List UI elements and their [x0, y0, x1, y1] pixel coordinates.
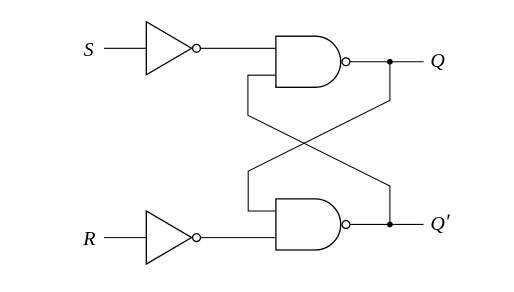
node Q' junction [387, 222, 393, 228]
nand U3 (top NAND gate) [276, 36, 350, 87]
wire U2 output to bottom NAND input 2 [200, 237, 276, 239]
svg-text:R: R [82, 228, 95, 250]
inverter U1 (S input NOT gate) [146, 22, 200, 75]
wire Q' feedback to top NAND input 2 [248, 75, 390, 224]
wire S input [104, 47, 146, 49]
wire U4 output to Q' [350, 223, 424, 225]
svg-text:Q′: Q′ [430, 209, 450, 235]
svg-text:Q: Q [430, 50, 445, 72]
wire U1 output to top NAND input 1 [200, 47, 276, 49]
svg-text:S: S [84, 39, 94, 61]
wire Q feedback to bottom NAND input 1 [248, 62, 390, 211]
node Q junction [387, 59, 393, 65]
wire R input [104, 237, 146, 239]
nand U4 (bottom NAND gate) [276, 199, 350, 250]
inverter U2 (R input NOT gate) [146, 211, 200, 264]
wire U3 output to Q [350, 61, 424, 63]
